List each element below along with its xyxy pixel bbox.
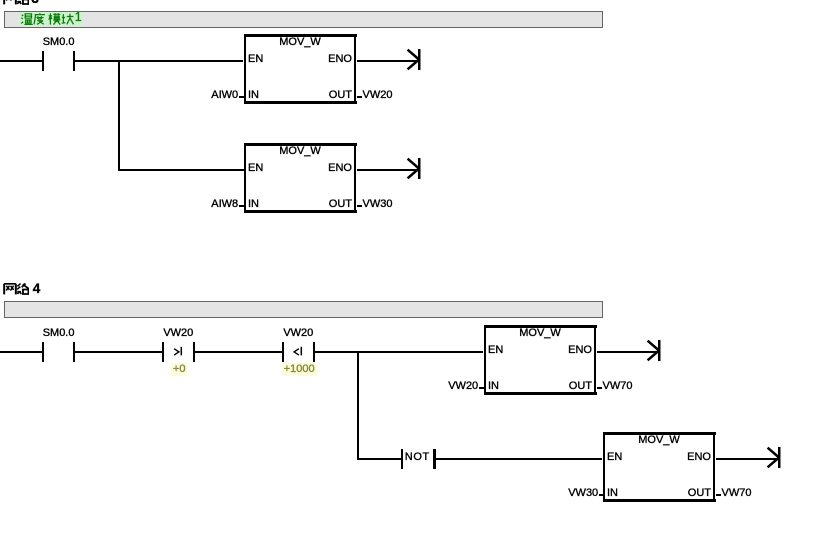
U4 OUT stub wire (716, 494, 721, 496)
contact SM0.0 (net3): left bar (42, 51, 44, 72)
U3 ENO output wire (597, 351, 659, 353)
contact SM0.0 (net4): left bar (42, 342, 44, 363)
U2 IN stub wire (239, 205, 245, 207)
net3 rung2 wire to MOV_W U2 (118, 169, 244, 171)
U1 IN stub wire (239, 96, 245, 98)
contact compare <I VW20 operand label VW20 (253, 328, 343, 339)
net4 rung2 wire NOT to MOV_W U4 (436, 458, 603, 460)
net4 wire compare1 to compare2 (195, 351, 283, 353)
MOV_W block U4 pin OUT (621, 488, 711, 499)
contact compare >I VW20 operand label VW20 (133, 328, 223, 339)
U2 input operand AIW8 (148, 199, 238, 210)
contact compare <I VW20: left bar (282, 342, 284, 363)
MOV_W block U3: box outline (484, 325, 597, 328)
MOV_W block U1 title MOV_W (255, 37, 345, 48)
net4 wire compare2 to MOV_W U3 (315, 351, 484, 353)
contact SM0.0 (net3): right bar (73, 51, 75, 72)
MOV_W block U2 pin EN (248, 163, 263, 174)
net3 rung1 wire contact to MOV_W U1 (75, 60, 243, 62)
U4 output operand VW70 (722, 488, 752, 499)
U1 output operand VW20 (363, 90, 393, 101)
comment glyph 温 (20, 13, 33, 25)
U1 input operand AIW0 (148, 90, 238, 101)
net4 rung2 wire to NOT contact (357, 458, 401, 460)
network 4 title glyph 络 (16, 283, 30, 295)
MOV_W block U3 pin EN (488, 345, 503, 356)
U3 IN stub wire (479, 387, 485, 389)
U4 IN stub wire (599, 494, 603, 496)
network 3 title glyph 网 (3, 0, 17, 5)
net3 rung1 arrow (rung end open arrow) (406, 48, 422, 71)
net3 rung1 wire from power rail (0, 60, 43, 62)
MOV_W block U3 pin OUT (502, 381, 592, 392)
U4 input operand VW30 (508, 488, 598, 499)
contact compare >I VW20 compare symbol >I (170, 344, 186, 360)
comment glyph 度 (33, 13, 46, 25)
comment digit 1 (75, 12, 82, 23)
U3 output operand VW70 (603, 381, 633, 392)
net3 branch vertical wire (118, 60, 120, 171)
MOV_W block U3 pin ENO (502, 345, 592, 356)
contact SM0.0 (net4) operand label SM0.0 (14, 328, 104, 339)
contact compare >I VW20: right bar (193, 342, 195, 363)
network 4 title number 4 (33, 282, 41, 296)
U3 input operand VW20 (388, 381, 478, 392)
MOV_W block U2 title MOV_W (255, 146, 345, 157)
MOV_W block U4 pin ENO (621, 452, 711, 463)
MOV_W block U2 pin ENO (262, 163, 352, 174)
MOV_W block U1 pin EN (248, 54, 263, 65)
U2 OUT stub wire (357, 205, 362, 207)
U4 ENO output wire (716, 458, 779, 460)
contact SM0.0 (net4): right bar (73, 342, 75, 363)
NOT contact label (372, 452, 462, 463)
contact compare <I VW20: right bar (313, 342, 315, 363)
contact NOT contact: left bar (401, 449, 403, 470)
MOV_W block U3 pin IN (488, 381, 499, 392)
contact compare >I VW20: left bar (162, 342, 164, 363)
contact compare <I VW20 compare symbol <I (290, 344, 306, 360)
comment glyph 块 (61, 13, 74, 25)
contact compare >I VW20 compare value highlight (171, 363, 187, 376)
MOV_W block U1 pin OUT (262, 90, 352, 101)
MOV_W block U2: box outline (244, 143, 357, 146)
U2 output operand VW30 (363, 199, 393, 210)
U1 OUT stub wire (357, 96, 362, 98)
MOV_W block U4 pin IN (607, 488, 618, 499)
network 3 title number 3 (31, 0, 39, 6)
MOV_W block U1 pin IN (248, 90, 259, 101)
MOV_W block U4: box outline (603, 432, 716, 435)
net4 branch vertical wire (357, 351, 359, 460)
net4 rung1 arrow (rung end open arrow) (646, 339, 662, 362)
U1 ENO output wire (357, 60, 418, 62)
MOV_W block U3 title MOV_W (495, 328, 585, 339)
network 3 comment bar (4, 11, 603, 28)
U3 OUT stub wire (597, 387, 602, 389)
MOV_W block U2 pin IN (248, 199, 259, 210)
contact compare <I VW20 compare value highlight (282, 363, 317, 376)
MOV_W block U1: box outline (244, 34, 357, 37)
network 3 comment highlight (19, 12, 82, 26)
net4 wire SM0.0 to compare contact 1 (75, 351, 162, 353)
network 3 title glyph 络 (16, 0, 30, 5)
MOV_W block U1 pin ENO (262, 54, 352, 65)
MOV_W block U4 title MOV_W (614, 435, 704, 446)
contact compare >I VW20 compare value +0 (134, 364, 224, 375)
network 4 title glyph 网 (3, 283, 17, 295)
net4 rung1 wire from power rail (0, 351, 43, 353)
net4 rung2 arrow (rung end open arrow) (766, 446, 782, 469)
net3 rung2 arrow (rung end open arrow) (406, 157, 422, 180)
MOV_W block U4 pin EN (607, 452, 622, 463)
contact compare <I VW20 compare value +1000 (254, 364, 344, 375)
contact NOT contact: right bar (433, 449, 435, 470)
U2 ENO output wire (357, 169, 418, 171)
MOV_W block U2 pin OUT (262, 199, 352, 210)
comment glyph 模 (48, 13, 61, 25)
network 4 comment bar (empty) (4, 301, 603, 318)
contact SM0.0 (net3) operand label SM0.0 (14, 37, 104, 48)
